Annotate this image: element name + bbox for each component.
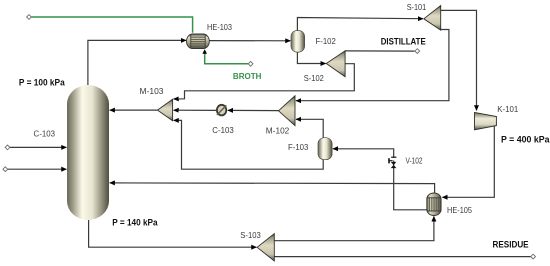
svg-text:C-103: C-103 — [34, 130, 56, 139]
svg-text:V-102: V-102 — [406, 157, 423, 166]
svg-text:S-102: S-102 — [304, 74, 325, 83]
svg-text:M-102: M-102 — [266, 126, 290, 135]
svg-text:P = 100 kPa: P = 100 kPa — [19, 78, 65, 89]
svg-text:S-101: S-101 — [407, 3, 427, 12]
svg-text:F-103: F-103 — [288, 143, 309, 152]
svg-text:K-101: K-101 — [497, 105, 519, 114]
svg-text:HE-103: HE-103 — [207, 23, 233, 32]
svg-text:P = 400 kPa: P = 400 kPa — [501, 135, 550, 146]
svg-text:P = 140 kPa: P = 140 kPa — [112, 217, 158, 228]
svg-text:HE-105: HE-105 — [447, 206, 473, 215]
svg-text:M-103: M-103 — [140, 87, 165, 96]
svg-text:F-102: F-102 — [316, 37, 337, 46]
svg-text:DISTILLATE: DISTILLATE — [381, 36, 427, 47]
svg-text:S-103: S-103 — [240, 231, 261, 240]
svg-text:C-103: C-103 — [212, 126, 234, 135]
svg-text:BROTH: BROTH — [233, 71, 262, 81]
svg-text:RESIDUE: RESIDUE — [493, 239, 530, 250]
